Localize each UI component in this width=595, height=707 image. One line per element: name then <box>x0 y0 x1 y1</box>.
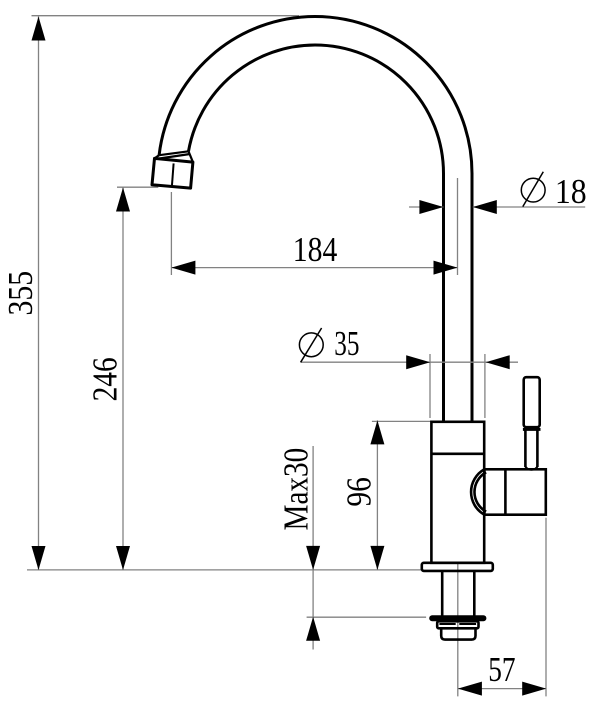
dimension 246 <box>86 188 130 571</box>
spout pipe right line <box>471 173 474 422</box>
svg-text:96: 96 <box>339 477 378 506</box>
countertop extension line <box>27 569 422 571</box>
dia35 left extension line <box>429 354 431 418</box>
mounting nut flange <box>429 615 486 621</box>
mounting nut middle band <box>437 621 478 628</box>
svg-text:Max30: Max30 <box>277 448 316 531</box>
svg-text:246: 246 <box>86 357 125 401</box>
svg-text:184: 184 <box>293 230 338 269</box>
aerator flare right <box>189 151 193 162</box>
handle right extension line <box>545 518 547 697</box>
handle joint outer curve <box>471 469 484 514</box>
shank left line <box>441 571 444 616</box>
spout inner arc <box>189 45 444 174</box>
base flange <box>422 563 493 571</box>
mounting nut bottom block <box>441 628 475 639</box>
body top extension line <box>372 420 431 422</box>
dimension 355 <box>1 17 45 571</box>
body cylinder <box>431 422 484 563</box>
nut top extension line <box>307 616 427 618</box>
dimension dia 18 <box>409 172 587 214</box>
lever knob <box>524 377 540 427</box>
tip bottom extension line <box>117 186 158 188</box>
body cap line <box>431 452 484 455</box>
spout outer arc <box>159 17 472 174</box>
aerator collar line 2 <box>159 154 190 159</box>
tip center extension line <box>170 192 172 275</box>
dia35 right extension line <box>484 354 486 418</box>
dimension 57 <box>458 650 546 696</box>
dimension dia 35 <box>299 324 518 369</box>
aerator flare left <box>155 155 160 158</box>
shank right line <box>473 571 476 616</box>
aerator center mark <box>172 163 174 186</box>
handle joint inner curve <box>474 472 486 511</box>
dimension 184 <box>171 230 457 275</box>
aerator collar line 1 <box>159 151 188 155</box>
dimension 96 <box>339 420 384 570</box>
dimension Max30 <box>277 446 321 650</box>
aerator box <box>152 158 193 188</box>
svg-text:355: 355 <box>1 271 40 316</box>
lever shaft <box>525 430 537 470</box>
handle body <box>484 469 545 514</box>
svg-text:57: 57 <box>488 650 515 689</box>
bottom center extension line <box>457 563 459 696</box>
handle inner line <box>504 469 507 514</box>
svg-text:18: 18 <box>555 172 587 211</box>
top extension line <box>32 15 300 17</box>
lever knob base band <box>523 428 541 431</box>
pipe center extension line <box>457 178 459 275</box>
spout pipe left line <box>442 173 445 422</box>
svg-text:35: 35 <box>334 324 359 363</box>
